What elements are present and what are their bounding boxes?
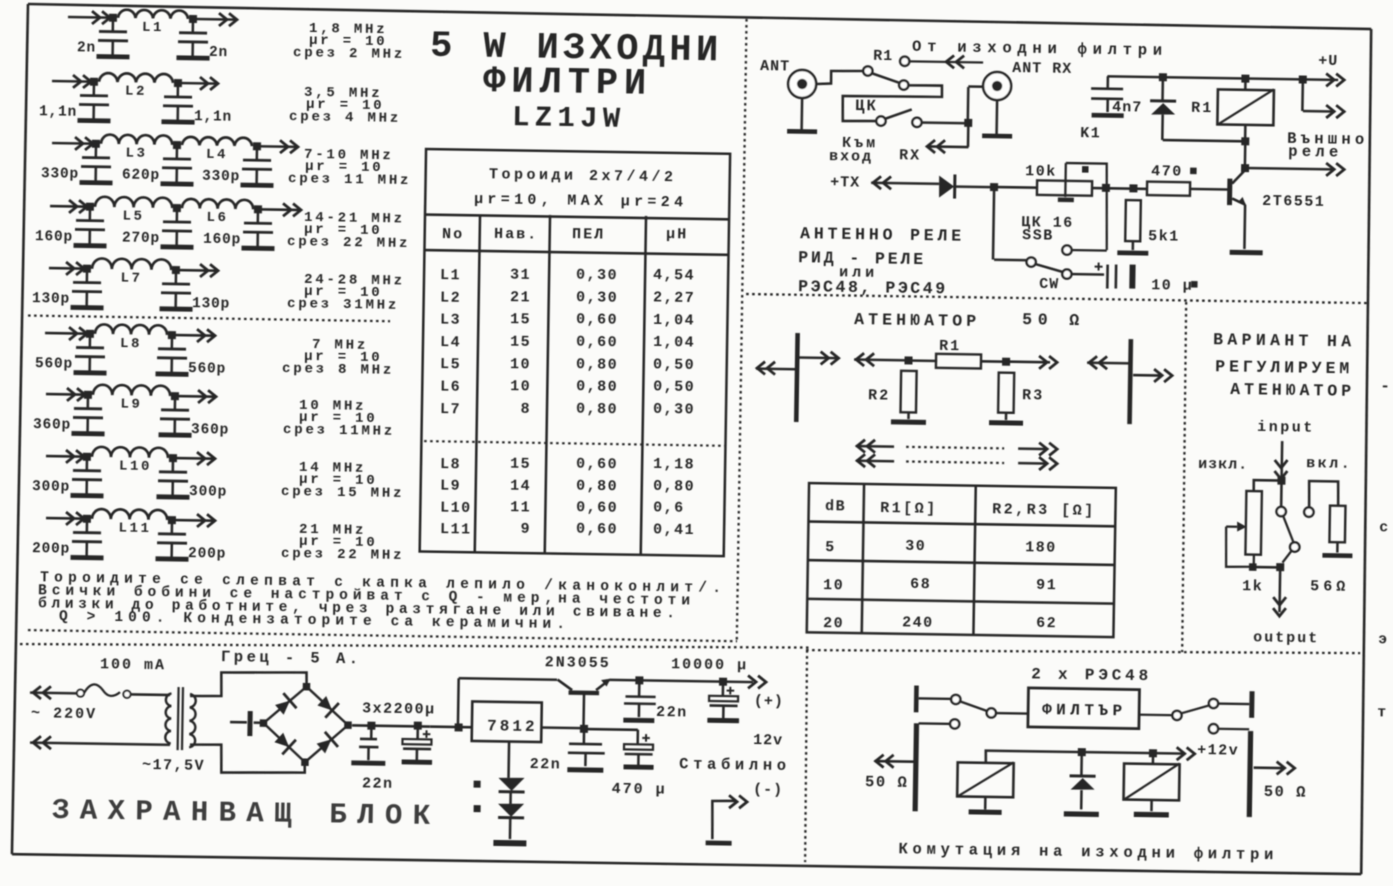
svg-text:L7: L7 bbox=[440, 401, 461, 418]
wire (TX feed) bbox=[871, 183, 939, 184]
switch contact (left NC) bbox=[950, 719, 959, 728]
junction (regulator input) bbox=[455, 723, 463, 731]
transformer (secondary winding) bbox=[189, 694, 196, 747]
polarity + (10000μ) bbox=[727, 690, 735, 692]
svg-text:АТЕНЮАТОР: АТЕНЮАТОР bbox=[1230, 380, 1351, 401]
capacitor 160p (L5 filter, position 1) bbox=[89, 207, 92, 220]
wire (to regulator) bbox=[430, 725, 472, 728]
ground (diode) bbox=[1064, 811, 1099, 817]
svg-text:4n7: 4n7 bbox=[1112, 99, 1142, 116]
svg-text:160p: 160p bbox=[203, 232, 241, 249]
svg-text:160p: 160p bbox=[35, 229, 73, 246]
svg-text:1,1n: 1,1n bbox=[194, 109, 232, 126]
input arrow (L3 filter) bbox=[85, 137, 93, 150]
potentiometer 1k bbox=[1245, 491, 1261, 555]
node (L1 output) bbox=[189, 15, 197, 23]
inductor L1 bbox=[118, 10, 188, 19]
svg-text:22n: 22n bbox=[362, 775, 394, 792]
wire output (L8 filter) bbox=[172, 334, 215, 337]
svg-text:0,80: 0,80 bbox=[576, 477, 618, 495]
svg-text:22n: 22n bbox=[656, 704, 688, 721]
ground (relay1) bbox=[969, 809, 1002, 815]
wire (left NC to tall bar) bbox=[919, 722, 950, 725]
wire (filter box to right switch) bbox=[1140, 713, 1173, 716]
svg-text:э: э bbox=[1378, 631, 1387, 648]
wire (secondary bottom to bridge) bbox=[190, 744, 306, 774]
svg-text:ЦК: ЦК bbox=[855, 97, 878, 115]
wire (470μ feed) bbox=[584, 728, 638, 731]
ground bbox=[160, 181, 193, 186]
switch contact ЦК (throw) bbox=[912, 118, 921, 127]
svg-text:срез 4 MHz: срез 4 MHz bbox=[289, 109, 401, 127]
svg-text:L8: L8 bbox=[120, 336, 142, 352]
svg-text:62: 62 bbox=[1036, 615, 1057, 632]
capacitor 22n (bridge) bbox=[370, 726, 373, 738]
arrow (input reflection) bbox=[856, 353, 864, 366]
wire input (L5 filter) bbox=[50, 205, 90, 208]
capacitor 300p (L10 filter, position 2) bbox=[171, 458, 174, 471]
dashed separator horizontal (left column bottom) bbox=[28, 630, 737, 641]
svg-text:R1: R1 bbox=[873, 48, 893, 65]
svg-text:8: 8 bbox=[520, 401, 531, 418]
junction (bridge right) bbox=[344, 721, 352, 729]
capacitor 360p (L9 filter, position 1) bbox=[86, 395, 89, 408]
page border left bbox=[12, 4, 28, 854]
svg-text:L10: L10 bbox=[440, 499, 472, 516]
input arrow (L8 filter) bbox=[79, 327, 87, 340]
svg-text:R1[Ω]: R1[Ω] bbox=[880, 500, 938, 518]
output arrow (L9 filter) bbox=[208, 390, 216, 403]
arrow (TX input) bbox=[873, 176, 881, 189]
page border bottom bbox=[12, 853, 1361, 875]
svg-text:срез 22 MHz: срез 22 MHz bbox=[287, 234, 410, 252]
table dashed row separator bbox=[424, 441, 728, 446]
output arrow (L7 filter) bbox=[210, 264, 218, 277]
inductor L11 bbox=[92, 509, 167, 520]
ground bbox=[787, 129, 817, 134]
svg-text:130p: 130p bbox=[32, 291, 70, 308]
svg-text:L6: L6 bbox=[440, 379, 461, 396]
ground (470μ) bbox=[623, 764, 652, 769]
dashed separator horizontal (L7/L8 rows) bbox=[28, 316, 390, 322]
capacitor 360p (L9 filter, position 2) bbox=[174, 396, 177, 409]
inductor L7 bbox=[92, 258, 171, 270]
output arrow (L11 filter) bbox=[207, 514, 215, 527]
junction (5k1 top) bbox=[1129, 184, 1137, 192]
svg-text:вкл.: вкл. bbox=[1306, 455, 1352, 473]
svg-text:2N3055: 2N3055 bbox=[545, 654, 611, 672]
svg-text:R2,R3 [Ω]: R2,R3 [Ω] bbox=[992, 501, 1096, 520]
svg-text:изкл.: изкл. bbox=[1198, 456, 1248, 474]
inductor L9 bbox=[93, 385, 170, 396]
wire output (L10 filter) bbox=[173, 457, 215, 460]
wire (external relay line) bbox=[1245, 168, 1332, 169]
input arrow (L1 filter) bbox=[102, 11, 110, 24]
junction (rail / relay) bbox=[1241, 75, 1249, 83]
inductor L4 bbox=[182, 137, 252, 146]
node (L3 output) bbox=[173, 141, 181, 149]
svg-text:330p: 330p bbox=[202, 169, 240, 186]
svg-text:т: т bbox=[1377, 704, 1386, 721]
svg-text:50 Ω: 50 Ω bbox=[1264, 783, 1307, 802]
capacitor 22n (base node) bbox=[583, 729, 586, 744]
svg-text:15: 15 bbox=[510, 456, 531, 473]
polarity + (470μ) bbox=[642, 737, 650, 739]
table rule under column headers bbox=[425, 250, 729, 255]
switch contact (left pole) bbox=[951, 695, 960, 704]
svg-text:L5: L5 bbox=[440, 356, 461, 373]
svg-text:2n: 2n bbox=[77, 40, 96, 56]
capacitor 620p (L3 filter, position 2) bbox=[176, 145, 179, 158]
input arrow (L2 filter) bbox=[83, 75, 91, 88]
ground bbox=[156, 556, 189, 561]
switch contact (bypass, top) bbox=[1276, 507, 1286, 517]
ground (relay2) bbox=[1134, 812, 1169, 818]
svg-text:360p: 360p bbox=[191, 422, 229, 439]
junction (bridge top) bbox=[303, 683, 311, 691]
wire (fuse to transformer) bbox=[131, 693, 170, 696]
svg-text:7812: 7812 bbox=[487, 717, 538, 736]
capacitor 130p (L7 filter, position 2) bbox=[175, 270, 178, 283]
resistor R1 (attenuator) bbox=[936, 354, 981, 369]
junction (bridge bottom) bbox=[301, 758, 309, 766]
svg-text:R3: R3 bbox=[1022, 387, 1044, 404]
node (L8 output) bbox=[168, 331, 176, 339]
wire (rail left segment) bbox=[459, 678, 557, 680]
arrow +U bbox=[1336, 74, 1344, 87]
attenuator table frame bbox=[807, 483, 1116, 637]
wire (right throw to bar) bbox=[1218, 702, 1249, 705]
svg-text:L10: L10 bbox=[119, 459, 152, 476]
switch contact CW (throw) bbox=[1062, 269, 1071, 278]
arrow (output) bbox=[1049, 356, 1057, 369]
series diodes (7812 ground leg) bbox=[507, 741, 510, 778]
svg-text:560p: 560p bbox=[188, 361, 226, 378]
svg-text:L3: L3 bbox=[125, 146, 147, 162]
output arrow (L5 filter) bbox=[293, 204, 301, 217]
svg-text:2n: 2n bbox=[209, 45, 228, 61]
junction (+12v diode) bbox=[1078, 748, 1086, 756]
svg-text:100 mA: 100 mA bbox=[100, 656, 166, 674]
svg-text:1,1n: 1,1n bbox=[39, 104, 77, 121]
ground bbox=[96, 54, 129, 59]
svg-text:0,80: 0,80 bbox=[576, 401, 618, 419]
svg-text:130p: 130p bbox=[192, 296, 230, 313]
resistor R2 bbox=[908, 370, 910, 372]
svg-text:0,60: 0,60 bbox=[576, 456, 618, 474]
ground (4n7) bbox=[1092, 113, 1124, 118]
svg-text:0,30: 0,30 bbox=[653, 401, 695, 419]
svg-text:L6: L6 bbox=[206, 210, 228, 226]
input arrow (L7 filter) bbox=[76, 262, 84, 275]
svg-text:~ 220V: ~ 220V bbox=[31, 705, 97, 723]
transistor 2Т6551 bbox=[1227, 179, 1232, 206]
svg-text:+U: +U bbox=[1318, 53, 1338, 70]
table column line 2 bbox=[545, 215, 550, 554]
table column line 1 bbox=[475, 215, 480, 553]
svg-text:~17,5V: ~17,5V bbox=[142, 757, 205, 775]
ground bbox=[71, 431, 104, 436]
node (L4 output) bbox=[253, 142, 261, 150]
legend arrows row 1 (right) bbox=[1018, 447, 1046, 450]
junction (bridge left) bbox=[260, 719, 268, 727]
switch contact (antenna changeover, pole) bbox=[863, 66, 872, 75]
svg-text:АТЕНЮАТОР: АТЕНЮАТОР bbox=[854, 310, 976, 331]
svg-text:10 μ: 10 μ bbox=[1151, 277, 1193, 295]
svg-text:ПЕЛ: ПЕЛ bbox=[572, 226, 605, 244]
svg-text:(+): (+) bbox=[754, 693, 784, 710]
wire (bridge plus to caps) bbox=[352, 725, 430, 726]
junction (R1 right) bbox=[1002, 358, 1010, 366]
wire (relay bottom rail) bbox=[1163, 140, 1246, 141]
svg-text:+12v: +12v bbox=[1197, 742, 1239, 760]
junction (22n node) bbox=[367, 722, 375, 730]
svg-text:5k1: 5k1 bbox=[1148, 228, 1180, 245]
node (L2 input) bbox=[90, 78, 98, 86]
connector bar (top right) bbox=[1249, 691, 1254, 718]
dashed separator horizontal (power supply top) bbox=[20, 635, 810, 656]
capacitor 4n7 bbox=[1106, 76, 1109, 88]
junction (rail 10000μ) bbox=[719, 678, 727, 686]
node (L9 output) bbox=[171, 392, 179, 400]
wire (node to pot top) bbox=[1254, 480, 1282, 491]
capacitor 10000μ (electrolytic) bbox=[722, 682, 725, 696]
wire output (L5 filter) bbox=[258, 208, 301, 211]
wire (bracket to SSB contact) bbox=[1072, 249, 1107, 252]
ground (wiper) bbox=[1058, 198, 1074, 203]
svg-text:L9: L9 bbox=[120, 397, 142, 413]
wire (ЦК to junction) bbox=[921, 121, 966, 124]
output arrow (L2 filter) bbox=[210, 77, 218, 90]
regulator 7812 (box) bbox=[472, 701, 542, 742]
svg-text:0,50: 0,50 bbox=[653, 379, 695, 397]
ground bbox=[982, 134, 1012, 139]
svg-text:0,80: 0,80 bbox=[576, 356, 618, 374]
wire output (L9 filter) bbox=[175, 395, 216, 398]
junction (RX node) bbox=[964, 119, 972, 127]
node (L9 input) bbox=[84, 391, 92, 399]
svg-text:output: output bbox=[1253, 629, 1319, 647]
ground bbox=[240, 183, 273, 188]
dashed separator horizontal (relay switch box top) bbox=[806, 644, 1360, 658]
wire (attenuator input) bbox=[854, 358, 908, 361]
svg-text:R2: R2 bbox=[868, 387, 890, 404]
diode (filter switching) bbox=[1080, 752, 1083, 775]
wire (to ANT RX connector) bbox=[968, 85, 983, 88]
wire (right NC to tall bar) bbox=[1218, 728, 1249, 731]
switch contact CW (pole) bbox=[1026, 257, 1035, 266]
svg-text:15: 15 bbox=[510, 334, 531, 351]
dashed separator vertical (power supply / relay box) bbox=[804, 650, 809, 862]
svg-text:Тороиди 2x7/4/2: Тороиди 2x7/4/2 bbox=[489, 166, 673, 186]
wire (10k to 470) bbox=[1092, 187, 1147, 190]
inductor L8 bbox=[95, 324, 167, 335]
relay R1 (coil box) bbox=[1217, 89, 1274, 125]
wire (to R1) bbox=[909, 359, 937, 362]
switch contact (antenna changeover, throw) bbox=[899, 80, 908, 89]
capacitor 2n (L1 filter, position 1) bbox=[112, 18, 115, 31]
inductor L2 bbox=[99, 73, 173, 83]
svg-text:R1: R1 bbox=[1191, 100, 1213, 117]
transformer (primary winding) bbox=[165, 693, 171, 743]
svg-text:L5: L5 bbox=[122, 209, 144, 225]
svg-text:SSB: SSB bbox=[1022, 227, 1054, 244]
ground bbox=[71, 305, 104, 310]
svg-text:ANT RX: ANT RX bbox=[1012, 60, 1072, 78]
svg-text:91: 91 bbox=[1036, 577, 1057, 594]
svg-text:14: 14 bbox=[510, 477, 531, 494]
svg-text:0,60: 0,60 bbox=[576, 311, 618, 329]
wire (CW to capacitor) bbox=[1071, 273, 1104, 276]
svg-text:11: 11 bbox=[510, 499, 531, 516]
svg-text:21: 21 bbox=[510, 289, 531, 306]
polarity + (10μ) bbox=[1095, 266, 1103, 268]
input arrow (L11 filter) bbox=[76, 512, 84, 525]
svg-text:ANT: ANT bbox=[760, 58, 790, 75]
wire (junction down to RX arrow) bbox=[967, 123, 970, 147]
svg-text:L4: L4 bbox=[440, 334, 461, 351]
wire (+U rail) bbox=[1107, 76, 1302, 79]
dashed separator vertical (filters / antenna section) bbox=[737, 19, 747, 642]
svg-text:30: 30 bbox=[905, 538, 926, 555]
legend arrows row 2 (left) bbox=[856, 459, 894, 462]
ground (56Ω) bbox=[1322, 553, 1352, 558]
wire (second +U branch) bbox=[1303, 110, 1332, 113]
capacitor 270p (L5 filter, position 2) bbox=[176, 208, 179, 221]
legend dashed line row 1 bbox=[906, 447, 1004, 449]
switch wire (node to contact) bbox=[1280, 481, 1283, 507]
box ФИЛТЪР bbox=[1028, 688, 1140, 729]
transformer core bbox=[176, 687, 179, 750]
svg-text:10k: 10k bbox=[1025, 163, 1057, 180]
resistor R3 bbox=[998, 373, 1014, 413]
terminal (bridge minus) bbox=[230, 721, 247, 724]
attenuator table column line 2 bbox=[973, 486, 975, 635]
arrow (output) bbox=[1273, 608, 1286, 616]
connector bar (attenuator left) bbox=[796, 333, 797, 422]
wire (rail corner down) bbox=[1301, 79, 1304, 111]
svg-text:0,50: 0,50 bbox=[653, 356, 695, 374]
switch arm (left) bbox=[960, 701, 987, 711]
wire+arrow (right 50Ω) bbox=[1254, 766, 1283, 769]
svg-text:срез 15 MHz: срез 15 MHz bbox=[281, 484, 404, 502]
ground bbox=[176, 55, 209, 60]
legend dashed line row 2 bbox=[906, 461, 1004, 463]
wire (pot bottom to output node) bbox=[1254, 566, 1280, 569]
svg-text:L1: L1 bbox=[440, 267, 461, 284]
svg-text:0,41: 0,41 bbox=[653, 521, 695, 539]
svg-text:22n: 22n bbox=[530, 756, 562, 773]
svg-text:0,30: 0,30 bbox=[576, 267, 618, 285]
svg-text:μН: μН bbox=[666, 226, 688, 243]
relay 2 (coil box) bbox=[1124, 764, 1180, 801]
node (L6 output) bbox=[254, 205, 262, 213]
adjust mark (diode 1) bbox=[474, 781, 481, 788]
svg-text:No: No bbox=[442, 226, 464, 243]
wire input (L10 filter) bbox=[46, 455, 87, 458]
svg-text:10000 μ: 10000 μ bbox=[671, 656, 748, 674]
diode (bridge top-left) bbox=[273, 693, 297, 717]
node (L10 input) bbox=[83, 453, 91, 461]
ground bbox=[77, 118, 110, 123]
arrow (external relay) bbox=[1336, 163, 1344, 176]
svg-text:0,60: 0,60 bbox=[576, 334, 618, 352]
wire+arrow (220V live) bbox=[30, 691, 77, 694]
wire (relay1 to ground) bbox=[984, 796, 987, 809]
wire (+12v arrow) bbox=[1153, 752, 1183, 755]
switch contact (right NC) bbox=[1209, 724, 1218, 733]
svg-text:L9: L9 bbox=[440, 478, 461, 495]
ground (2200μ) bbox=[402, 759, 432, 764]
svg-text:LZ1JW: LZ1JW bbox=[512, 101, 621, 136]
ground bbox=[74, 370, 107, 375]
polarity + (2200μ) bbox=[423, 733, 431, 735]
wiper bracket wire bbox=[1064, 163, 1108, 250]
wire output (L11 filter) bbox=[172, 519, 215, 522]
svg-text:330p: 330p bbox=[41, 166, 79, 183]
arrow +12v bbox=[1186, 747, 1194, 760]
ground (R2) bbox=[891, 419, 926, 425]
svg-text:0,80: 0,80 bbox=[653, 478, 695, 496]
capacitor 1,1n (L2 filter, position 1) bbox=[93, 82, 96, 95]
diode (relay flyback) bbox=[1161, 77, 1164, 100]
svg-text:10: 10 bbox=[510, 356, 531, 373]
capacitor 330p (L3 filter, position 1) bbox=[95, 144, 98, 157]
wire input (L9 filter) bbox=[46, 393, 88, 396]
wire (diode to junction) bbox=[956, 185, 993, 188]
dashed separator horizontal (antenna box bottom) bbox=[746, 293, 1368, 303]
ground bbox=[1230, 250, 1263, 256]
wire (pot stem) bbox=[1253, 555, 1255, 566]
junction (rail / diode) bbox=[1159, 73, 1167, 81]
switch arm ЦК (open) bbox=[885, 109, 912, 119]
svg-text:срез 8 MHz: срез 8 MHz bbox=[282, 361, 394, 379]
svg-text:470 μ: 470 μ bbox=[612, 781, 667, 799]
capacitor 300p (L10 filter, position 1) bbox=[86, 457, 89, 470]
junction (+12v relay2) bbox=[1149, 749, 1157, 757]
ground bbox=[80, 180, 113, 185]
bridge rectifier Грец (diamond) bbox=[263, 686, 349, 763]
svg-text:1,04: 1,04 bbox=[653, 312, 695, 330]
ground bbox=[1117, 250, 1148, 255]
svg-text:срез 11MHz: срез 11MHz bbox=[283, 422, 395, 440]
output arrow (L8 filter) bbox=[207, 329, 215, 342]
inductor L10 bbox=[92, 447, 168, 458]
svg-text:CW: CW bbox=[1039, 276, 1059, 293]
svg-text:4,54: 4,54 bbox=[653, 267, 695, 285]
capacitor 470μ (electrolytic) bbox=[636, 730, 639, 744]
junction (rail 22n) bbox=[635, 676, 643, 684]
node (L2 output) bbox=[174, 79, 182, 87]
resistor 56Ω bbox=[1329, 506, 1345, 543]
svg-text:10: 10 bbox=[510, 378, 531, 395]
wire (relay2 to ground) bbox=[1150, 800, 1153, 811]
svg-text:RX: RX bbox=[899, 147, 921, 164]
attenuator table rule 3 bbox=[807, 599, 1114, 604]
switch arm (right) bbox=[1181, 705, 1209, 714]
node (L3 input) bbox=[92, 140, 100, 148]
capacitor 22n (output rail) bbox=[638, 680, 641, 696]
ground bbox=[160, 306, 193, 311]
wire output (L7 filter) bbox=[176, 269, 218, 272]
svg-text:R1: R1 bbox=[939, 338, 961, 355]
wire (5k1 to ground) bbox=[1131, 241, 1134, 250]
svg-text:10: 10 bbox=[823, 577, 844, 594]
table column line 3 bbox=[641, 216, 646, 555]
svg-text:срез 31MHz: срез 31MHz bbox=[287, 296, 399, 314]
svg-text:0,80: 0,80 bbox=[576, 378, 618, 396]
legend arrows row 1 (left) bbox=[856, 445, 894, 448]
